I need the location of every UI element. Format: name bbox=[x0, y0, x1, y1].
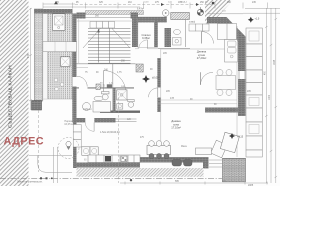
svg-text:+0,15: +0,15 bbox=[237, 136, 244, 139]
floor edge lines dining bbox=[157, 99, 237, 101]
existing garage brick block (bottom right) bbox=[223, 158, 246, 182]
svg-text:478: 478 bbox=[170, 97, 175, 100]
top window box (bath window) bbox=[171, 13, 190, 20]
washing machines bbox=[82, 147, 98, 156]
bedroom wall vertical bbox=[132, 19, 138, 48]
chamfered corner wall bbox=[221, 17, 246, 43]
bottom-right corner post bbox=[203, 157, 209, 169]
survey point dot bbox=[212, 2, 215, 5]
bath2 toilet bbox=[117, 100, 134, 110]
elevation marker bottom right bbox=[229, 133, 244, 139]
wc left: toilet bbox=[101, 92, 109, 110]
steps by corner post bbox=[209, 160, 222, 167]
middle-right wall (living/terrace) bbox=[205, 108, 244, 113]
svg-text:+1,0: +1,0 bbox=[255, 18, 260, 21]
sofa rotated bbox=[220, 132, 239, 152]
wall finish line stairwell bbox=[78, 19, 80, 63]
boundary gate marks bbox=[40, 177, 132, 181]
bedroom/hall wall vertical right bbox=[154, 20, 158, 47]
dining set upper (living) bbox=[216, 70, 236, 96]
hall lower edge line bbox=[158, 48, 190, 50]
door arc cabinet room bbox=[85, 123, 94, 132]
bath bottom wall bbox=[100, 111, 140, 113]
neighbour hatch wedge top-right bbox=[205, 0, 233, 24]
terrace stipple area bbox=[43, 14, 73, 100]
svg-text:2085: 2085 bbox=[248, 185, 254, 186]
svg-text:±0,00: ±0,00 bbox=[152, 76, 159, 80]
door arc left wall bbox=[77, 76, 87, 86]
terrace walkway white band bbox=[43, 42, 77, 52]
top wall segment C + corner bbox=[207, 17, 222, 24]
staircase bbox=[83, 22, 131, 63]
walkway strip along party wall bbox=[43, 14, 48, 99]
tiny top annotation texts bbox=[143, 2, 226, 13]
svg-text:ВиД-1: ВиД-1 bbox=[181, 2, 188, 4]
terrace planter box lower bbox=[61, 57, 71, 67]
svg-text:±0,00: ±0,00 bbox=[143, 2, 149, 4]
party wall brick (vertical, left) bbox=[34, 9, 43, 101]
terrace shaft box upper bbox=[53, 14, 66, 31]
living room thin outlines bbox=[77, 21, 237, 157]
door arc bath bbox=[149, 88, 158, 97]
tree dashed circle bbox=[58, 138, 79, 159]
neighbour rooms box ladder (right strip) bbox=[246, 28, 262, 157]
yard corner column bbox=[32, 101, 42, 111]
door arc upper hall bbox=[202, 32, 214, 44]
shower cabin bbox=[117, 90, 128, 100]
closet column along left wall bbox=[73, 125, 81, 148]
right dimension lines bbox=[265, 8, 277, 183]
svg-text:СЪЩЕСТВУВАЩ КАЛКАН: СЪЩЕСТВУВАЩ КАЛКАН bbox=[8, 65, 14, 128]
yard dashed line vertical bbox=[38, 110, 40, 172]
top window band (terrace french window) bbox=[86, 11, 144, 18]
shaft block small bath bbox=[165, 28, 172, 47]
small bath fixtures bbox=[173, 29, 182, 45]
yard walkway lines bbox=[29, 147, 72, 183]
property boundary dash-dot bbox=[0, 177, 222, 179]
svg-text:Линия на уличната рег.: Линия на уличната рег. bbox=[17, 181, 43, 184]
kitchen counter bottom bbox=[88, 155, 140, 163]
section dashed line vertical bbox=[118, 93, 120, 183]
bath tiny texts bbox=[100, 83, 125, 88]
svg-text:1060: 1060 bbox=[269, 94, 271, 100]
bedroom door arc bbox=[139, 40, 148, 49]
armchair rotated bbox=[196, 140, 228, 158]
bath duct hatched bbox=[96, 84, 100, 90]
bath partition thin bbox=[185, 20, 187, 48]
svg-text:1,75: 1,75 bbox=[117, 72, 122, 74]
svg-text:шкаф: шкаф bbox=[189, 21, 195, 24]
bottom dimension line bbox=[120, 182, 268, 185]
dining table with chairs bbox=[147, 141, 171, 159]
hall shaft box bbox=[136, 64, 143, 72]
svg-text:1-5см 20,90/20,04: 1-5см 20,90/20,04 bbox=[100, 131, 120, 134]
svg-text:815: 815 bbox=[27, 53, 30, 58]
svg-text:Маса: Маса bbox=[181, 146, 187, 148]
svg-text:6,47м²: 6,47м² bbox=[137, 8, 144, 11]
bath divider wall bbox=[113, 88, 115, 113]
elevation marker top right bbox=[248, 17, 260, 23]
vent circle ВиД bbox=[162, 10, 169, 17]
svg-text:17,10м²: 17,10м² bbox=[171, 126, 181, 130]
svg-text:27,20м²: 27,20м² bbox=[197, 56, 207, 60]
cabinet room desk bbox=[83, 96, 111, 112]
bottom wall living section bbox=[138, 157, 204, 163]
terrace footing circles bbox=[54, 78, 64, 91]
sidewalk hatch band bbox=[77, 168, 204, 177]
left dimension line bbox=[29, 8, 32, 110]
bedroom room outline bbox=[138, 20, 154, 47]
bath top edge bbox=[88, 87, 135, 89]
door arc living bbox=[200, 72, 213, 85]
hall partition line bbox=[112, 64, 114, 111]
column circle K1 bbox=[197, 7, 203, 15]
building left wall bbox=[72, 14, 76, 43]
roof line marks bbox=[161, 3, 164, 6]
neighbour building diagonal hatch band (left edge) bbox=[0, 0, 29, 186]
compass / elevation marker bbox=[142, 75, 159, 83]
top wall segment B bbox=[131, 13, 139, 19]
terrace top wall bbox=[34, 9, 72, 14]
bottom wall kitchen section bbox=[77, 163, 141, 168]
kitchen counter inside corner bbox=[218, 24, 238, 63]
top wall segment A bbox=[77, 13, 86, 19]
svg-text:АДРЕС: АДРЕС bbox=[4, 135, 45, 147]
entrance door big arc bbox=[104, 71, 127, 94]
hall wall vertical (x157) bbox=[157, 58, 160, 88]
hall wardrobe boxes bbox=[189, 24, 209, 31]
top dimension lines bbox=[43, 3, 280, 14]
mid-left wall y118 bbox=[75, 118, 85, 123]
svg-text:Кабинет: Кабинет bbox=[83, 109, 93, 111]
svg-text:16,05 м²: 16,05 м² bbox=[64, 123, 74, 126]
svg-text:1645: 1645 bbox=[274, 59, 276, 65]
right building wall (vertical) bbox=[238, 40, 246, 71]
planters below wall bbox=[172, 160, 192, 167]
wardrobe boxes below window bbox=[90, 22, 115, 29]
svg-text:9,35м²: 9,35м² bbox=[142, 36, 150, 40]
